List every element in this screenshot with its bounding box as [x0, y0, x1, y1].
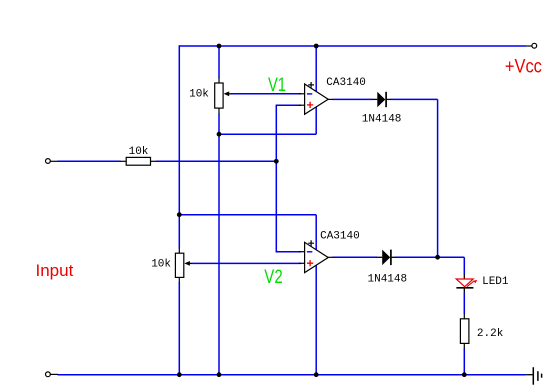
svg-text:CA3140: CA3140: [326, 77, 366, 89]
svg-text:10k: 10k: [129, 146, 149, 158]
potentiometer P1 10k: [215, 78, 232, 114]
wire top +Vcc rail: [179, 45, 526, 47]
wire +Vcc branch to U2 V+ supply: [179, 215, 316, 250]
node top rail U1 supply: [314, 44, 319, 49]
diode D2 1N4148: [377, 250, 396, 266]
wire input node to U1 non-inverting input: [276, 105, 301, 161]
svg-text:1N4148: 1N4148: [362, 114, 402, 126]
node P1 bottom: [217, 132, 222, 137]
node ground rail x219: [217, 372, 222, 377]
wire P1 wiper to U1 inverting input: [232, 93, 302, 95]
svg-text:10k: 10k: [189, 89, 209, 101]
node ground rail U2: [314, 372, 319, 377]
svg-text:V2: V2: [264, 267, 282, 288]
node diode outputs: [435, 255, 440, 260]
svg-text:1N4148: 1N4148: [368, 274, 408, 286]
resistor R1 10k: [120, 157, 157, 165]
svg-text:V1: V1: [268, 75, 286, 96]
node input junction: [274, 159, 279, 164]
terminal +Vcc: [526, 43, 536, 48]
wire D2 cathode to LED corner: [395, 257, 464, 274]
terminal input: [46, 159, 59, 164]
wire U2 output to D2: [333, 256, 378, 258]
wire input node to U2 inverting input: [276, 161, 301, 251]
wire LED cathode to R2: [463, 293, 465, 314]
svg-text:2.2k: 2.2k: [477, 328, 504, 340]
wire input right segment: [156, 160, 276, 162]
svg-text:LED1: LED1: [482, 276, 509, 288]
op-amp U2 CA3140: [299, 240, 333, 272]
wire P2 wiper to U2 non-inverting input: [192, 262, 302, 264]
wire P1 bottom to ground rail: [218, 113, 220, 374]
wire P1 bottom node to U1 V- supply: [219, 107, 316, 134]
resistor R2 2.2k: [460, 314, 469, 349]
node ground rail R2: [462, 372, 467, 377]
wire bottom ground rail: [58, 374, 527, 376]
svg-text:CA3140: CA3140: [320, 231, 360, 243]
svg-text:10k: 10k: [151, 259, 171, 271]
potentiometer P2 10k: [175, 248, 191, 282]
LED LED1: [456, 274, 477, 293]
wire U1 V+ supply drop: [315, 46, 317, 92]
op-amp U1 CA3140: [299, 82, 333, 114]
wire input left segment: [58, 160, 121, 162]
node U2 V+ branch: [177, 212, 182, 217]
diode D1 1N4148: [372, 92, 391, 107]
wire U2 V- supply to ground rail: [315, 265, 317, 374]
ground: [526, 367, 541, 385]
wire D1 cathode down to diode node: [391, 99, 438, 257]
wire R2 bottom to ground rail: [463, 348, 465, 374]
wire left +Vcc branch lower: [178, 282, 180, 375]
node top rail P1: [217, 44, 222, 49]
svg-text:+Vcc: +Vcc: [505, 56, 542, 77]
svg-text:Input: Input: [36, 261, 74, 280]
wire left +Vcc branch upper: [178, 45, 180, 248]
terminal bottom left: [46, 372, 59, 377]
node ground rail x179: [177, 372, 182, 377]
wire U1 output to D1: [333, 98, 373, 100]
wire P1 top lead from rail: [218, 46, 220, 78]
